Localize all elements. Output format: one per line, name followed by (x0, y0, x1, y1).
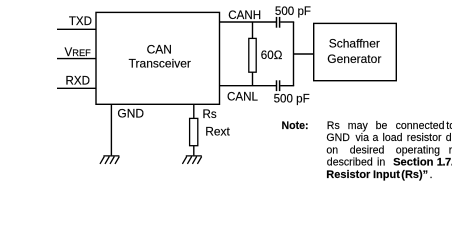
wire junction vertical (293, 22, 295, 86)
svg-text:ondesiredoperatingrange: ondesiredoperatingrange (326, 144, 452, 156)
svg-text:VREF: VREF (65, 46, 92, 59)
svg-text:TXD: TXD (69, 15, 92, 28)
svg-text:Note:: Note: (282, 120, 309, 132)
ground symbol left (100, 156, 119, 164)
wire TXD input (57, 28, 96, 30)
svg-text:RXD: RXD (66, 75, 90, 88)
wire Rs pin (193, 104, 195, 118)
wire RXD input (57, 87, 96, 89)
CAN transceiver box U1 (96, 12, 220, 104)
svg-text:Rext: Rext (205, 124, 230, 138)
svg-text:ResistorInput(Rs)”.: ResistorInput(Rs)”. (326, 169, 432, 181)
wire 60 ohm to CANL (252, 72, 254, 86)
svg-text:60Ω: 60Ω (261, 49, 283, 62)
wire CANH (220, 21, 277, 23)
wire cap1 to junction (280, 21, 294, 23)
capacitor C2 500 pF bottom (277, 80, 280, 91)
svg-text:Schaffner: Schaffner (329, 37, 380, 51)
resistor R1 60 ohm (249, 38, 256, 72)
wire to generator (294, 53, 314, 55)
resistor Rext (190, 118, 198, 145)
wire CANL (220, 85, 277, 87)
svg-text:Transceiver: Transceiver (129, 57, 191, 71)
svg-text:describedinSection1.7.3: describedinSection1.7.3 (327, 157, 452, 169)
svg-text:500 pF: 500 pF (274, 92, 310, 105)
svg-text:Generator: Generator (327, 52, 381, 66)
svg-text:Rsmaybeconnectedto: Rsmaybeconnectedto (327, 120, 452, 132)
wire Rext to ground (193, 146, 195, 156)
svg-text:CAN: CAN (147, 42, 172, 56)
wire cap2 to junction (280, 85, 294, 87)
svg-text:CANH: CANH (228, 9, 261, 22)
svg-text:Rs: Rs (203, 108, 217, 121)
svg-text:500 pF: 500 pF (275, 5, 311, 18)
svg-text:CANL: CANL (227, 91, 258, 104)
wire CANH to 60 ohm resistor (252, 22, 254, 38)
svg-text:GND: GND (117, 107, 144, 121)
wire VREF input (57, 58, 96, 60)
wire GND pin (110, 104, 112, 155)
ground symbol right (182, 156, 201, 164)
svg-text:GNDviaaloadresistordepending: GNDviaaloadresistordepending (326, 132, 452, 144)
capacitor C1 500 pF top (277, 17, 280, 28)
Schaffner generator box (314, 23, 397, 80)
